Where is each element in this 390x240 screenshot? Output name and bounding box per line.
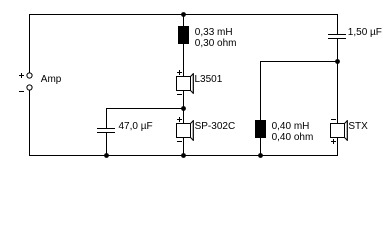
wire center vertical middle [183,91,185,124]
svg-text:1,50 µF: 1,50 µF [348,27,382,38]
svg-text:SP-302C: SP-302C [195,121,236,132]
speaker L3501 minus [177,94,182,96]
speaker STX plus [331,139,336,144]
label STX [348,121,368,132]
wire top horizontal [29,14,338,16]
svg-text:0,40 mH: 0,40 mH [272,121,310,132]
speaker STX cone [345,120,348,141]
value label L2 [272,121,314,143]
speaker L3501 cone [191,73,194,94]
wire L2 branch vertical upper [260,62,262,121]
capacitor C2 1.5uF plates [328,35,346,39]
value label C2 [348,27,382,38]
speaker STX minus [331,119,336,121]
inductor L1 0.33mH body [178,26,189,44]
svg-text:0,30 ohm: 0,30 ohm [195,38,237,49]
value label L1 [195,27,237,49]
speaker STX box [331,124,345,138]
wire left vertical (amp - lead) [29,90,31,155]
svg-text:0,40 ohm: 0,40 ohm [272,132,314,143]
node junction mid center [181,106,186,111]
wire STX bottom lead [337,138,339,156]
svg-text:L3501: L3501 [195,74,223,85]
node junction bottom center [181,153,186,158]
capacitor C1 47uF plates [97,129,115,133]
speaker SP-302C box [177,124,191,138]
wire left vertical (amp + lead) [29,14,31,73]
wire horizontal branch to L2 [260,61,338,63]
wire right vertical upper [337,15,339,35]
node junction bottom left cap [104,153,109,158]
speaker SP-302C minus [177,141,182,143]
node junction top center [181,12,186,17]
wire cap 47uF top lead [106,109,108,129]
speaker SP-302C plus [177,117,182,122]
speaker SP-302C cone [191,120,194,141]
terminal - of Amp [19,85,32,92]
wire horizontal to cap 47uF [106,108,184,110]
label L3501 [195,74,223,85]
value label C1 [119,121,153,132]
wire L2 branch vertical lower [260,138,262,156]
wire center vertical lower [183,138,185,156]
wire cap 47uF bottom lead [106,133,108,155]
svg-text:47,0 µF: 47,0 µF [119,121,153,132]
wire bottom horizontal [29,155,338,157]
svg-text:STX: STX [348,121,368,132]
node junction right [335,59,340,64]
node junction bottom right [258,153,263,158]
label Amp [41,74,62,85]
terminal + of Amp [19,73,32,78]
svg-text:0,33 mH: 0,33 mH [195,27,233,38]
label SP-302C [195,121,236,132]
svg-text:Amp: Amp [41,74,62,85]
speaker L3501 plus [177,70,182,75]
wire right vertical below cap [337,39,339,124]
inductor L2 0.40mH body [255,120,266,138]
wire center vertical upper [183,15,185,77]
speaker L3501 box [177,77,191,91]
